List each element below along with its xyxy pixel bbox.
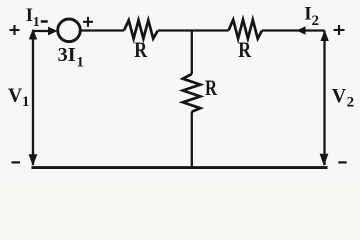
svg-text:I: I	[304, 3, 311, 24]
current arrow down at bottom-left corner	[29, 154, 38, 166]
polarity minus of port 1	[12, 161, 21, 163]
wire left vertical (V1 branch)	[32, 31, 34, 166]
svg-text:V: V	[332, 85, 347, 107]
wire middle vertical bottom (R shunt to bottom rail)	[191, 112, 193, 168]
svg-text:2: 2	[312, 13, 320, 29]
wire from source to resistor R1	[80, 29, 125, 31]
svg-text:2: 2	[347, 95, 355, 111]
current arrow I2 (pointing left)	[297, 26, 306, 34]
current arrow down at bottom-right corner	[320, 154, 329, 166]
svg-text:1: 1	[22, 94, 30, 110]
current arrow up at top-left corner	[29, 29, 37, 40]
dependent voltage source U1 3I1	[58, 19, 81, 42]
current arrow up at top-right corner	[320, 30, 328, 41]
wire from R2 to right corner	[262, 29, 325, 31]
wire between R1 and R2 (through top node)	[158, 29, 229, 31]
polarity minus of port 2	[338, 161, 346, 163]
wire right vertical (V2 branch)	[323, 31, 325, 166]
polarity plus of source	[83, 17, 93, 27]
svg-text:R: R	[238, 37, 252, 62]
resistor R2 (top right series)	[229, 20, 263, 39]
wire bottom rail	[32, 166, 328, 169]
polarity minus of source	[41, 20, 48, 23]
svg-text:R: R	[134, 37, 148, 62]
resistor R3 (shunt)	[183, 74, 201, 112]
svg-text:1: 1	[33, 15, 40, 30]
wire top-left horizontal into source	[33, 30, 50, 32]
polarity plus of port 1	[10, 25, 20, 35]
svg-text:V: V	[8, 85, 23, 107]
svg-text:R: R	[205, 75, 218, 100]
wire middle vertical top (node to R shunt)	[191, 31, 193, 75]
current arrow I1 (into source)	[48, 27, 58, 36]
resistor R1 (top left series)	[124, 20, 158, 38]
svg-text:3I: 3I	[58, 44, 76, 66]
polarity plus of port 2	[334, 25, 345, 35]
svg-text:1: 1	[76, 55, 84, 71]
